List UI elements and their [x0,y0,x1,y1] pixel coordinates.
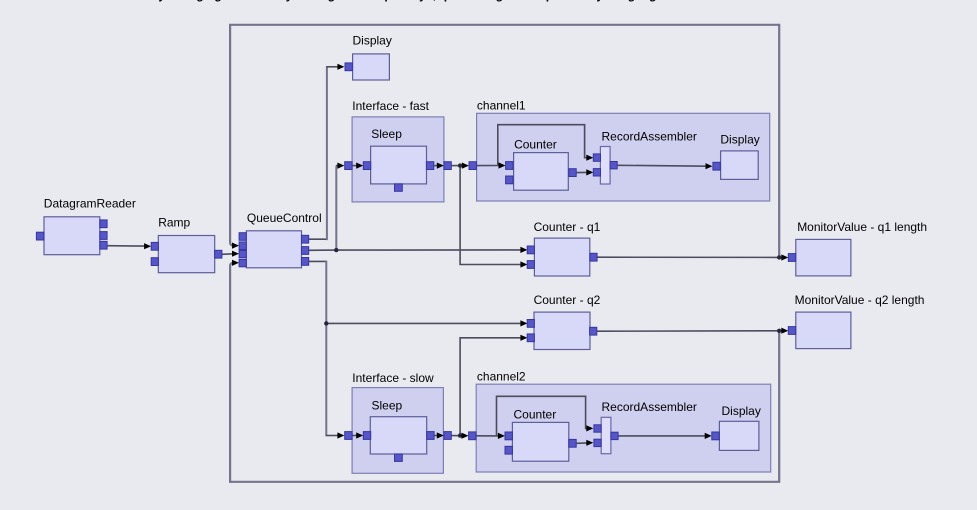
wire loop node J4 up over top and down left into QueueControl.in2 [230,25,779,258]
arrow into channel2 input port [462,433,469,439]
port Display(top).input (left) [345,63,352,71]
arrow into Counter-q2.in1 [520,320,527,326]
port Sleep1.output (right) [426,162,433,170]
wire node J2 down to Counter-q1.in2 [460,166,521,265]
port RecordAssembler(ch2).in1 (left top) [594,425,601,432]
wire Interface-slow output to node J6 to channel2 input port [451,435,463,437]
wire QueueControl.out1 to Display(top) [309,238,326,240]
arrow into QueueControl.in4 [232,260,239,266]
wire node J6 up to Counter-q2.in2 [460,338,521,436]
actor Display (top) [345,54,389,80]
actor Counter - q1 [527,238,597,276]
port RecordAssembler(ch1).in2 (left bottom) [593,169,600,176]
port QueueControl.in1 (input, left 1) [239,233,246,241]
svg-text:Display: Display [720,132,759,146]
port Counter-q1.output (right) [590,253,597,261]
arrow into Counter-q1.in1 [520,247,527,253]
arrow into Interface-slow input port [337,432,344,438]
port Display(ch1).input (left) [713,162,720,170]
port Counter(ch1).in1 (left top) [506,162,513,170]
arrow into Display(ch1) port [706,163,713,169]
wire QueueControl.out1 riser (vertical) [326,66,328,240]
svg-text:Sleep: Sleep [372,399,403,413]
wire Counter(ch1).output to RecordAssembler(ch1).in2 [576,171,587,173]
arrow into Sleep2 input port [356,432,363,438]
wire into Display(top) horizontal [326,66,338,68]
node J4 [777,255,781,259]
wire channel1 input port to node J3 to Counter(ch1).in1 [477,165,500,167]
arrow into Interface-fast input port [337,163,344,169]
actor DatagramReader [36,217,107,255]
arrow into Counter-q1.in2 [520,261,527,267]
port Interface-slow.output (boundary, right) [444,432,451,440]
arrow into QueueControl.in2 [232,243,239,249]
actor RecordAssembler (channel2) [594,417,618,453]
arrow into Display(top) port [337,64,344,70]
port Interface-fast.output (boundary, right) [444,162,451,170]
port Sleep1.input (left) [363,162,370,170]
port QueueControl.in4 (input, left 4) [239,259,246,266]
wire RecordAssembler(ch1).output to Display(ch1) [617,164,707,167]
actor Display (channel1) [713,151,758,180]
arrow into channel1 input port [462,163,469,169]
arrow into Ramp.trigger [144,243,151,249]
wire node J1 up to Interface-fast input (riser) [335,166,337,249]
port Sleep1.delay (parameter, bottom) [395,184,403,191]
port Counter-q1.in2 (left bottom) [527,261,534,269]
wire Sleep1 output to Interface-fast output port [434,165,438,167]
arrow into Display(ch2) port [705,433,712,439]
wire Counter(ch2).output to RecordAssembler(ch2).in2 [577,442,588,444]
port DatagramReader.out1 (output, right top) [100,220,107,228]
port RecordAssembler(ch1).output (right) [610,162,617,169]
wire RecordAssembler(ch2).output to Display(ch2) [617,435,706,437]
port Sleep2.output (right) [427,432,434,440]
node J2 [458,163,462,167]
port Counter(ch1).in2 (left bottom) [506,176,513,184]
port QueueControl.in3 (input, left 3) [239,250,246,257]
svg-text:RecordAssembler: RecordAssembler [602,400,697,414]
actor QueueControl [239,231,309,268]
arrow into MonitorValue-q2 port [781,328,788,334]
wire Interface-fast boundary port to Sleep1 input [352,165,357,167]
wire Interface-fast output to node J2 to channel1 input port [451,165,463,167]
wire node J5 right to Counter-q2.in1 [326,322,521,324]
composite Interface - slow [352,388,443,474]
actor Counter (channel2) [505,422,576,461]
svg-text:Try changing the rates by edit: Try changing the rates by editing the Sl… [147,0,670,2]
arrow into RecordAssembler(ch2).in1 [586,425,593,431]
arrow into Interface-slow output port [437,432,444,438]
actor RecordAssembler (channel1) [593,147,617,185]
wire Ramp.output to QueueControl.in3 [222,253,234,256]
composite channel2 [476,384,771,472]
wire Interface-slow boundary port to Sleep2 input [352,435,357,437]
port Interface-fast.input (boundary, left) [345,162,352,170]
ARROWHEADS [144,64,788,446]
port MonitorValue-q1.input (left) [788,254,795,262]
port Counter(ch1).output (right) [569,169,576,177]
wire QueueControl.out3 to drop point [309,260,327,262]
port Ramp.output (output, right) [215,250,222,258]
svg-text:Interface - fast: Interface - fast [352,99,429,113]
actor MonitorValue - q1 length [788,239,851,276]
svg-text:Display: Display [722,404,761,418]
actor Counter (channel1) [506,153,577,191]
port Interface-slow.input (boundary, left) [345,432,352,440]
node J5 [324,321,328,325]
arrow into Counter(ch1).in1 [499,162,506,168]
port Counter(ch2).in2 (left bottom) [505,446,512,454]
actor Ramp [151,236,222,273]
port RecordAssembler(ch2).output (right) [611,432,618,439]
actor MonitorValue - q2 length [788,312,851,349]
svg-text:MonitorValue - q2 length: MonitorValue - q2 length [795,293,925,307]
svg-text:Interface - slow: Interface - slow [352,371,434,385]
wire Counter-q2.output to node J8 to MonitorValue-q2 [597,330,783,333]
arrow into Interface-fast output port [437,163,444,169]
port QueueControl.out1 (output, right top) [302,235,309,243]
port Counter(ch2).output (right) [569,439,576,447]
port RecordAssembler(ch2).in2 (left bottom) [594,439,601,446]
wire elbow into Interface-slow input [326,435,339,437]
svg-text:MonitorValue - q1 length: MonitorValue - q1 length [797,220,927,234]
port channel1.input (boundary, left) [469,162,476,170]
composite Interface - fast [352,117,444,202]
wire Counter-q1.output to node J4 to MonitorValue-q1 [597,256,783,258]
port Ramp.step (input, left bottom) [151,258,158,266]
wire DatagramReader.output to Ramp.trigger [107,245,145,247]
port QueueControl.out3 (output, right bottom) [302,258,309,266]
svg-text:QueueControl: QueueControl [247,211,322,225]
port Ramp.trigger (input, left top) [151,242,158,250]
port DatagramReader.trigger (input, left) [36,232,43,240]
composite channel1 [477,113,770,201]
wire node J1 elbow into Interface-fast input [336,165,339,167]
svg-text:channel2: channel2 [477,370,526,384]
port Display(ch2).input (left) [712,432,719,440]
port QueueControl.in2 (input, left 2) [239,242,246,250]
arrow into RecordAssembler(ch1).in2 [586,169,593,175]
arrow into Counter-q2.in2 [520,335,527,341]
svg-text:Counter: Counter [514,138,557,152]
port QueueControl.out2 (output, right middle) [302,247,309,255]
svg-text:Display: Display [353,33,392,47]
arrow into Sleep1 input port [356,163,363,169]
actor Counter - q2 [527,312,597,349]
port channel2.input (boundary, left) [469,432,476,440]
wire node J7 feedback up-over to RecordAssembler(ch2).in1 [497,396,588,436]
port Sleep2.input (left) [363,432,370,440]
port RecordAssembler(ch1).in1 (left top) [593,154,600,161]
arrow into RecordAssembler(ch2).in2 [586,440,593,446]
svg-text:Ramp: Ramp [158,215,190,229]
node J6 [458,433,462,437]
node J1 [334,248,338,252]
svg-text:RecordAssembler: RecordAssembler [602,129,697,143]
svg-text:channel1: channel1 [477,99,526,113]
wire loop node J8 down under bottom and up left into QueueControl.in4 [230,263,779,482]
svg-text:DatagramReader: DatagramReader [44,197,136,211]
actor Sleep1 (in Interface - fast) [363,146,434,191]
arrow into RecordAssembler(ch1).in1 [586,155,593,161]
arrow into MonitorValue-q1 port [781,254,788,260]
port DatagramReader.output (output, right bottom) [100,241,107,249]
svg-text:Counter: Counter [514,408,557,422]
arrow into QueueControl.in3 [232,251,239,257]
port Counter-q2.in1 (left top) [527,320,534,328]
port Counter(ch2).in1 (left top) [505,432,512,440]
port Sleep2.delay (parameter, bottom) [395,454,403,461]
port Counter-q1.in1 (left top) [527,246,534,254]
svg-text:Counter - q2: Counter - q2 [534,293,601,307]
wire node J3 feedback up-over to RecordAssembler(ch1).in1 [498,125,588,166]
actor Sleep2 (in Interface - slow) [363,417,434,462]
wire QueueControl.out3 drop (vertical through node J5) [325,261,327,436]
node J8 [777,329,781,333]
port DatagramReader.out2 (output, right middle) [100,232,107,240]
arrow into Counter(ch2).in1 [498,433,505,439]
svg-text:Counter - q1: Counter - q1 [534,220,601,234]
port MonitorValue-q2.input (left) [788,327,795,335]
wire QueueControl.out2 to node J1 to Counter-q1.in1 [309,249,522,251]
port Counter-q2.output (right) [590,327,597,335]
port Counter-q2.in2 (left bottom) [527,334,534,342]
actor Display (channel2) [712,421,759,450]
wire Sleep2 output to Interface-slow output port [434,435,438,437]
svg-text:Sleep: Sleep [371,127,402,141]
wire channel2 input port to node J7 to Counter(ch2).in1 [476,435,499,437]
